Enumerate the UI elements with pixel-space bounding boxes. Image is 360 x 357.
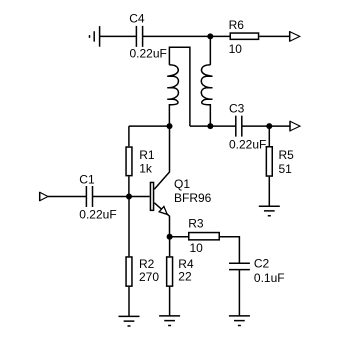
svg-text:C2: C2 [254,257,270,271]
svg-text:10: 10 [190,241,204,255]
svg-text:0.22uF: 0.22uF [130,47,167,61]
svg-text:C1: C1 [79,173,95,187]
svg-text:0.1uF: 0.1uF [254,271,285,285]
svg-text:C4: C4 [129,11,145,25]
svg-text:BFR96: BFR96 [174,191,212,205]
svg-text:51: 51 [279,162,293,176]
svg-text:R2: R2 [139,257,155,271]
svg-text:270: 270 [139,270,159,284]
svg-text:1k: 1k [139,162,153,176]
svg-text:R1: R1 [139,148,155,162]
svg-text:R6: R6 [229,18,245,32]
svg-text:R3: R3 [188,216,204,230]
svg-text:R5: R5 [279,148,295,162]
svg-text:Q1: Q1 [174,177,190,191]
svg-text:22: 22 [178,270,192,284]
svg-text:C3: C3 [229,101,245,115]
svg-text:10: 10 [229,42,243,56]
svg-text:0.22uF: 0.22uF [79,208,116,222]
svg-text:0.22uF: 0.22uF [229,138,266,152]
